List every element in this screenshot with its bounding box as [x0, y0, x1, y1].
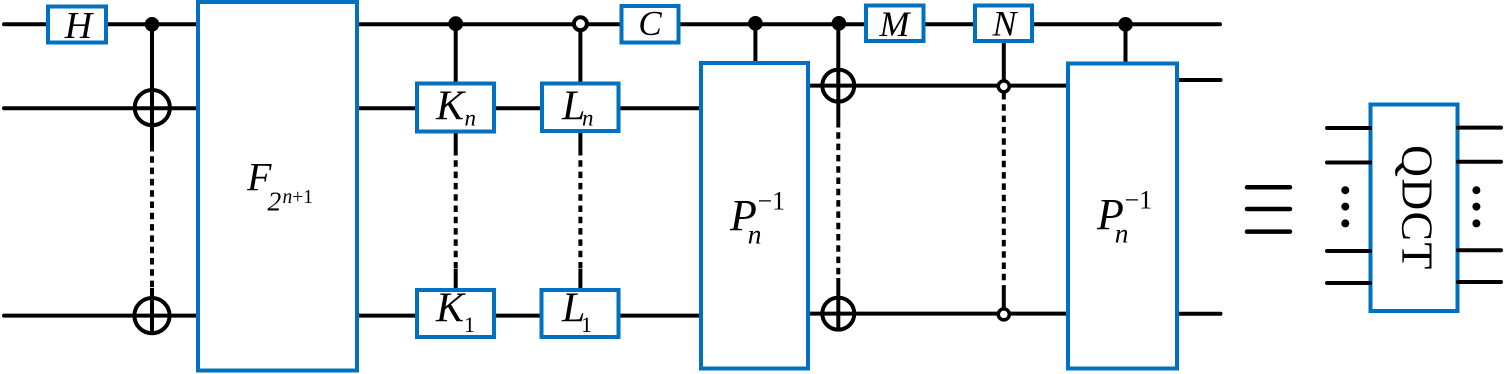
svg-text:C: C [638, 4, 662, 43]
svg-text:QDCT: QDCT [1393, 145, 1442, 271]
svg-text:M: M [879, 4, 912, 44]
svg-text:N: N [991, 3, 1018, 43]
svg-text:H: H [64, 5, 95, 47]
